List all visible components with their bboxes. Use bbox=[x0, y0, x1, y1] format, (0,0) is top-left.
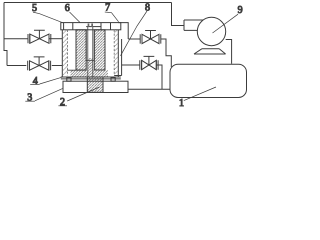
tank T1 bbox=[170, 64, 247, 97]
vessel bolt left bbox=[67, 78, 71, 82]
vessel base bbox=[63, 81, 128, 92]
vessel jacket right hatch bbox=[114, 30, 118, 76]
label 4 bbox=[30, 76, 63, 87]
label 5 bbox=[32, 3, 63, 23]
wire left vertical manifold bbox=[4, 3, 7, 66]
label 7 bbox=[105, 3, 119, 22]
svg-text:6: 6 bbox=[65, 3, 70, 14]
vessel left inner block bbox=[76, 30, 86, 70]
svg-text:3: 3 bbox=[27, 93, 32, 104]
vessel right port box bbox=[118, 23, 128, 39]
label 9 bbox=[213, 5, 243, 33]
vessel top plate bbox=[61, 23, 121, 30]
wire lower-left pipe bbox=[7, 65, 26, 67]
vessel bottom plate bbox=[61, 77, 121, 79]
valve upper-left bbox=[28, 30, 51, 43]
vessel inner walls bbox=[66, 30, 68, 76]
vessel jacket left hatch bbox=[63, 30, 68, 76]
label 3 bbox=[25, 89, 62, 104]
svg-text:8: 8 bbox=[145, 3, 150, 14]
wire lower-right pipe bbox=[122, 64, 140, 66]
label 2 bbox=[58, 87, 99, 108]
vessel bottom band bbox=[71, 70, 109, 77]
vessel outer walls bbox=[62, 30, 118, 77]
label 8 bbox=[121, 3, 151, 56]
vessel right downcomer bbox=[114, 39, 121, 76]
vessel bolt right bbox=[111, 78, 115, 82]
wire top pipe bbox=[4, 2, 172, 4]
label 1 bbox=[179, 87, 216, 109]
svg-text:4: 4 bbox=[33, 76, 38, 87]
svg-text:9: 9 bbox=[238, 5, 243, 16]
valve lower-right bbox=[140, 56, 158, 69]
vessel central tube bbox=[86, 27, 94, 77]
vessel bottom stem bbox=[88, 58, 93, 70]
wire upper-left pipe bbox=[4, 38, 28, 40]
vessel bottom plug bbox=[87, 77, 103, 92]
vessel right inner block bbox=[94, 30, 105, 70]
svg-text:2: 2 bbox=[60, 97, 65, 108]
pump U9 bbox=[184, 17, 226, 54]
wire pump outlet bbox=[226, 40, 232, 64]
wire drain pipe bbox=[128, 88, 170, 90]
wire upper-right pipe bbox=[128, 38, 140, 40]
label 6 bbox=[65, 3, 80, 23]
valve lower-left bbox=[28, 57, 51, 70]
vessel tube top nubs bbox=[88, 24, 90, 27]
valve upper-right bbox=[140, 31, 161, 44]
svg-text:1: 1 bbox=[179, 98, 184, 109]
wire right vertical to pump bbox=[172, 3, 185, 26]
